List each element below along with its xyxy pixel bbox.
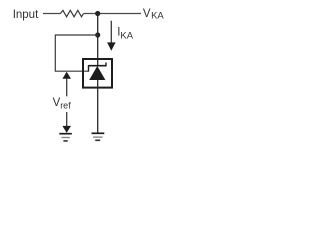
TL431 bar tab (right, up) — [105, 63, 107, 67]
Vref arrow up head — [62, 72, 71, 79]
TL431 triangle (anode) — [89, 66, 105, 80]
current arrow IKA head — [107, 42, 116, 50]
wire anode to ground — [97, 89, 99, 134]
svg-text:ref: ref — [60, 100, 71, 110]
resistor R (series input resistor) — [61, 10, 84, 16]
wire cathode node down to ref junction — [97, 14, 99, 36]
svg-text:KA: KA — [120, 31, 133, 42]
wire ref feedback: left, down, right into box — [55, 35, 97, 71]
wire input to resistor — [43, 13, 61, 15]
ground main bar 2 — [93, 136, 103, 138]
Vref arrow up shaft — [66, 78, 68, 96]
ground small bar 2 — [61, 137, 69, 139]
wire resistor to VKA terminal — [84, 13, 142, 15]
current arrow IKA shaft — [110, 21, 112, 44]
ground small bar 3 — [63, 140, 67, 142]
svg-text:V: V — [143, 8, 151, 20]
wire ref junction down into box top — [97, 35, 99, 66]
svg-text:KA: KA — [151, 11, 164, 22]
ground main bar 1 — [92, 132, 105, 134]
ground small bar 1 — [59, 133, 72, 135]
svg-text:Input: Input — [13, 9, 39, 21]
Vref arrow down shaft — [66, 112, 68, 127]
Vref arrow down head — [62, 126, 71, 133]
TL431 cathode bar — [89, 65, 107, 67]
TL431 ref tab (left, down) — [88, 65, 90, 72]
ground main bar 3 — [95, 139, 100, 141]
wire triangle base inside box — [97, 80, 99, 89]
device box U1 (TL431) — [83, 59, 112, 88]
junction dot top (cathode node) — [95, 11, 100, 16]
junction dot ref tap — [95, 32, 100, 37]
